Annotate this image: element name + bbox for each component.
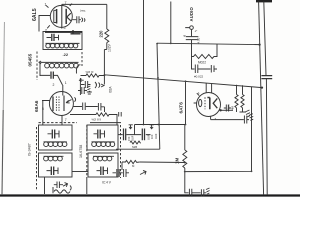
AVC resistor near BR can: [122, 160, 140, 163]
coil in TL: [44, 142, 67, 147]
svg-text:N2B: N2B: [132, 145, 137, 149]
wire between BL and BR: [72, 171, 88, 173]
audio output terminal: [185, 26, 193, 36]
svg-text:16-6758: 16-6758: [79, 145, 83, 158]
svg-text:IS-3487: IS-3487: [28, 143, 32, 156]
svg-text:o*: o*: [195, 29, 197, 33]
tube 6AT6: [194, 83, 233, 120]
svg-text:7: 7: [65, 118, 67, 122]
tube 6AL5: [44, 4, 76, 29]
capacitor in BR: [97, 168, 108, 175]
junction dots: [184, 162, 186, 164]
shield dashed line: [36, 52, 38, 81]
cathode wire and bypass cap with ground: [211, 114, 254, 124]
svg-text:1M: 1M: [175, 158, 180, 164]
svg-text:%2! 8 9: %2! 8 9: [92, 118, 102, 122]
bottom border line: [0, 194, 300, 196]
svg-text:UUF: UUF: [154, 133, 158, 139]
junction dot: [103, 74, 105, 76]
right column line 2 with inline capacitor: [264, 2, 267, 196]
shield dashed line right: [81, 52, 83, 66]
wire pin5 to TL can: [42, 101, 44, 126]
vertical wire x171: [170, 2, 172, 44]
svg-text:M022: M022: [198, 61, 206, 65]
caps at AVC node: [113, 162, 130, 177]
screen cap cluster right of 6BA6 top: [78, 86, 90, 94]
IF can box TL: [39, 125, 73, 150]
small parts bottom-left of cans: [53, 182, 71, 194]
right column line 1: [259, 2, 264, 196]
svg-text:UUF: UUF: [131, 135, 135, 141]
vertical stub at volume line left: [134, 125, 136, 135]
resistor 220 in plate column: [104, 4, 108, 84]
small cap left of resistors: [224, 105, 231, 112]
wire TR bottom to bus: [116, 148, 160, 150]
coil T2 secondary: [39, 61, 79, 68]
svg-text:I02A: I02A: [109, 86, 113, 93]
bottom caps at B- near 1M: [185, 188, 210, 197]
svg-text:102V: 102V: [108, 43, 112, 52]
capacitor in TL: [48, 131, 60, 138]
svg-text:4M: 4M: [231, 105, 235, 110]
resistor 470K plate load: [235, 85, 238, 112]
resistor 1M: [183, 125, 187, 194]
IF can box BL: [39, 153, 73, 177]
horizontal bus y44.5: [157, 43, 260, 44]
svg-text:6AL5: 6AL5: [32, 8, 38, 21]
svg-text:220: 220: [98, 30, 103, 38]
wire coil left down: [39, 62, 41, 76]
coil in BR: [93, 156, 114, 161]
svg-text:IC:4 V: IC:4 V: [102, 181, 112, 185]
svg-text:5: 5: [64, 26, 66, 30]
cap right of 6BA6 plate: [83, 103, 98, 111]
resistor 220K loop: [192, 44, 218, 59]
resistor cathode 6BA6: [70, 113, 117, 125]
coil in TR: [92, 142, 115, 147]
svg-text:150: 150: [127, 136, 131, 141]
svg-text:UUF: UUF: [147, 134, 151, 140]
left border line: [3, 22, 4, 110]
arrow detector: [140, 171, 146, 175]
sloped wire grid/plate bus to right column: [105, 75, 262, 125]
resistor horizontal at screen: [81, 74, 105, 77]
svg-text:#0.022: #0.022: [194, 75, 204, 79]
svg-text:1: 1: [65, 81, 67, 85]
resistor 2 (diode load): [240, 85, 247, 112]
cap and arrow cluster at screen node: [81, 81, 104, 88]
small resistor below caps: [130, 141, 141, 144]
series caps 150uuf to bus: [118, 125, 154, 140]
wire BL bottom down: [44, 177, 46, 194]
capacitor in TR: [94, 131, 105, 138]
capacitors .0022 grid coupling: [192, 57, 218, 74]
svg-text:2: 2: [53, 83, 55, 87]
svg-text:(rwc.: (rwc.: [80, 9, 86, 13]
IF can box BR: [88, 153, 118, 177]
svg-text:AUDIO: AUDIO: [189, 6, 194, 21]
dashed shield mid: [86, 125, 88, 178]
capacitor with ground at 6AL5 right pin: [77, 16, 85, 23]
dashed shield left of cans: [36, 127, 38, 190]
tube 6BA6: [42, 92, 82, 126]
IF can box TR: [87, 125, 118, 150]
volume line from caps into 1M column: [135, 124, 186, 126]
capacitor inline on column 2: [261, 76, 272, 79]
coil in BL: [44, 156, 64, 161]
capacitor in BL: [47, 168, 59, 175]
svg-text:100: 100: [150, 134, 154, 139]
svg-text:68A6: 68A6: [34, 100, 40, 112]
svg-text:1: 1: [45, 3, 47, 7]
capacitor inside T2: [47, 35, 59, 40]
svg-text:.22: .22: [63, 52, 69, 57]
top-right border segment: [256, 0, 272, 2]
svg-text:6AT6: 6AT6: [179, 102, 185, 114]
capacitor .0047 audio coupling: [186, 37, 198, 44]
svg-text:%0! 9!: %0! 9!: [86, 70, 94, 74]
junction dots on bus: [170, 43, 172, 45]
svg-text:4.00?: 4.00?: [197, 36, 201, 44]
stage box: plate line down right side and bottom: [185, 87, 252, 172]
svg-text:5!: 5!: [184, 34, 187, 38]
AVC line to 1M: [140, 161, 185, 164]
small cap at TR top wire: [119, 112, 122, 117]
wire top from 6AL5 plate to 220 ohm column: [62, 3, 107, 5]
wire shield to ground bar: [86, 178, 88, 194]
ground below resistors: [245, 110, 250, 117]
long vertical bus x143.5: [143, 0, 145, 125]
corner wire from bus down to grid line: [157, 43, 160, 149]
svg-text:05455: 05455: [28, 53, 33, 66]
IF transformer can T2 (box): [43, 32, 82, 50]
capacitor grid 6BA6: [40, 75, 63, 95]
dashed shield right: [120, 125, 122, 178]
wire 6AL5 left pin down to IF can: [39, 16, 44, 32]
coil inside T2 box: [46, 43, 80, 48]
dashed top shield: [39, 122, 78, 124]
